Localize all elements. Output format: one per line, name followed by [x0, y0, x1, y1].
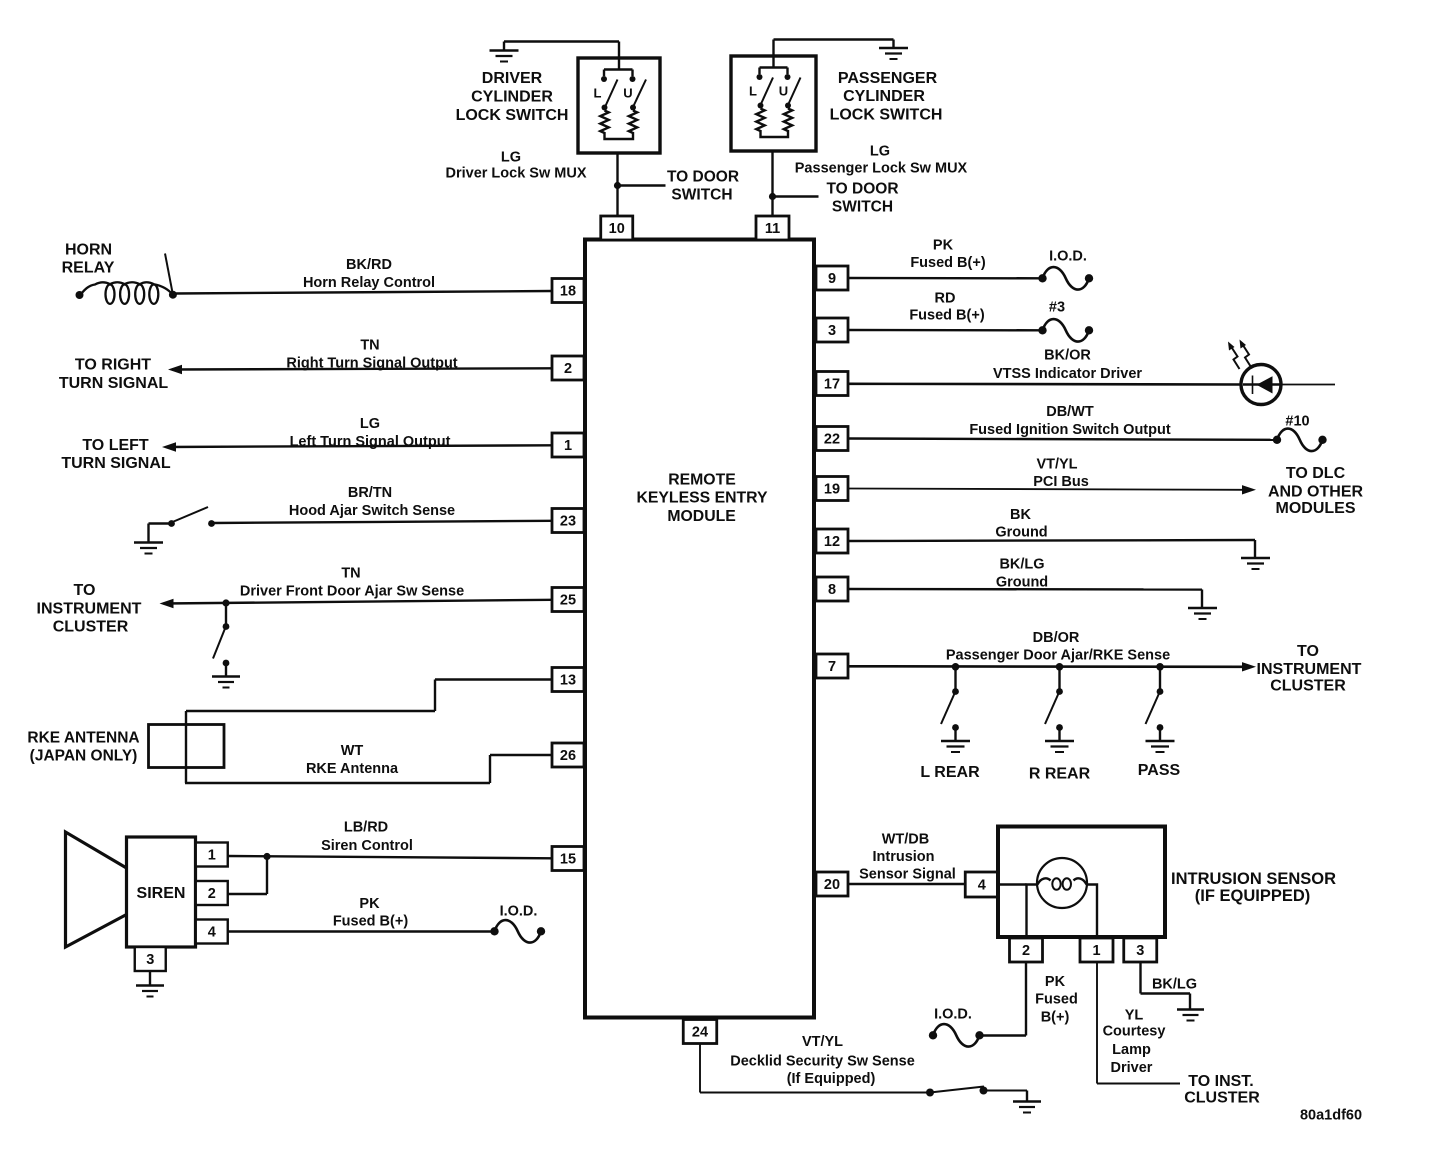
ground driver front door ajar switch — [212, 677, 240, 688]
label LG Passenger Lock Sw MUX — [795, 143, 968, 176]
svg-text:(IF EQUIPPED): (IF EQUIPPED) — [1195, 887, 1311, 905]
module pin 2 — [552, 356, 584, 380]
svg-text:LOCK SWITCH: LOCK SWITCH — [830, 106, 943, 123]
svg-text:REMOTE: REMOTE — [668, 472, 736, 489]
svg-text:TO RIGHT: TO RIGHT — [75, 356, 151, 373]
svg-text:TURN SIGNAL: TURN SIGNAL — [59, 375, 169, 392]
siren pin 2 — [196, 881, 228, 905]
svg-text:TO INST.: TO INST. — [1188, 1073, 1254, 1090]
wire pin 3 fused B+ — [848, 329, 1041, 332]
module pin 12 — [816, 529, 848, 553]
module pin 19 — [816, 477, 848, 501]
svg-text:22: 22 — [824, 431, 840, 447]
siren pin 3 — [135, 947, 166, 971]
svg-text:BR/TN: BR/TN — [348, 485, 392, 501]
svg-text:TO DLC: TO DLC — [1286, 465, 1346, 482]
hood ajar switch S3 — [149, 507, 215, 543]
wire horn relay control to pin 18 — [175, 291, 552, 294]
svg-text:CLUSTER: CLUSTER — [1184, 1089, 1260, 1106]
svg-text:I.O.D.: I.O.D. — [934, 1006, 972, 1022]
label #3 — [1049, 299, 1065, 315]
svg-text:TO DOOR: TO DOOR — [667, 169, 739, 186]
label VT/YL Decklid Security Sw Sense (If Equipped) — [730, 1034, 915, 1087]
wire pin 17 VTSS indicator — [848, 382, 1335, 385]
svg-text:24: 24 — [692, 1024, 708, 1040]
label DRIVER CYLINDER LOCK SWITCH — [456, 70, 569, 124]
svg-text:BK: BK — [1010, 507, 1031, 523]
horn relay coil K1 — [76, 254, 177, 304]
wire pin 26 to RKE antenna — [185, 755, 552, 783]
label PASSENGER CYLINDER LOCK SWITCH — [830, 70, 943, 124]
ground siren — [136, 986, 164, 997]
svg-text:TO LEFT: TO LEFT — [82, 437, 149, 454]
svg-text:R REAR: R REAR — [1029, 765, 1091, 782]
svg-text:PK: PK — [359, 896, 380, 912]
label R REAR — [1029, 765, 1091, 782]
svg-text:17: 17 — [824, 376, 840, 392]
svg-text:Fused B(+): Fused B(+) — [910, 255, 985, 271]
label BK/OR VTSS Indicator Driver — [993, 347, 1142, 382]
ground intrusion sensor — [1177, 1010, 1204, 1021]
intrusion sensor pin 3 — [1124, 938, 1157, 962]
door ajar switch L REAR — [941, 667, 959, 741]
ground decklid switch — [1013, 1102, 1041, 1113]
label BR/TN Hood Ajar Switch Sense — [289, 485, 455, 519]
label L REAR — [920, 764, 980, 781]
svg-text:HORN: HORN — [65, 241, 112, 258]
label WT/DB Intrusion Sensor Signal — [859, 831, 956, 882]
svg-text:#3: #3 — [1049, 299, 1065, 315]
fuse I.O.D. (siren) — [490, 920, 545, 943]
svg-text:WT: WT — [341, 743, 364, 759]
svg-text:26: 26 — [560, 748, 576, 764]
svg-text:TURN SIGNAL: TURN SIGNAL — [61, 455, 171, 472]
ground L REAR — [941, 741, 970, 752]
svg-text:18: 18 — [560, 283, 576, 299]
ground PASS — [1146, 741, 1175, 752]
svg-text:SWITCH: SWITCH — [671, 187, 732, 204]
svg-text:LG: LG — [870, 143, 890, 159]
svg-text:11: 11 — [765, 221, 780, 237]
module pin 25 — [552, 588, 584, 612]
module pin 7 — [816, 654, 848, 678]
lamp inside intrusion sensor — [1037, 858, 1087, 908]
svg-text:12: 12 — [824, 534, 840, 550]
label YL Courtesy Lamp Driver — [1103, 1007, 1166, 1076]
svg-text:20: 20 — [824, 877, 840, 893]
RKE antenna E1 — [149, 725, 225, 768]
svg-text:SWITCH: SWITCH — [832, 199, 893, 216]
svg-text:RKE Antenna: RKE Antenna — [306, 761, 399, 777]
wire intrusion pin 3 ground — [1141, 962, 1191, 1009]
label RD Fused B(+) (pin 3) — [909, 290, 984, 323]
svg-text:YL: YL — [1125, 1007, 1144, 1023]
module pin 13 — [552, 668, 584, 692]
svg-text:CYLINDER: CYLINDER — [471, 88, 553, 105]
label TO LEFT TURN SIGNAL — [61, 437, 171, 472]
svg-text:2: 2 — [564, 361, 572, 377]
svg-text:Sensor Signal: Sensor Signal — [859, 866, 956, 882]
ground driver lock switch — [490, 51, 519, 62]
svg-text:LB/RD: LB/RD — [344, 819, 388, 835]
svg-text:CLUSTER: CLUSTER — [53, 618, 129, 635]
label DB/WT Fused Ignition Switch Output — [969, 404, 1171, 438]
svg-text:I.O.D.: I.O.D. — [1049, 248, 1087, 264]
svg-text:RKE ANTENNA: RKE ANTENNA — [27, 730, 139, 747]
label LB/RD Siren Control — [321, 819, 413, 854]
wire lamp to intrusion pin 2 — [1027, 885, 1038, 938]
svg-text:PASSENGER: PASSENGER — [838, 70, 938, 87]
svg-text:Hood Ajar Switch Sense: Hood Ajar Switch Sense — [289, 503, 455, 519]
label I.O.D. (siren) — [500, 903, 538, 919]
driver cylinder lock switch S1 — [578, 58, 660, 153]
svg-text:9: 9 — [828, 271, 836, 287]
svg-text:Lamp: Lamp — [1112, 1042, 1151, 1058]
svg-text:I.O.D.: I.O.D. — [500, 903, 538, 919]
module pin 26 — [552, 743, 584, 767]
svg-text:TN: TN — [341, 565, 360, 581]
siren speaker cone — [66, 832, 127, 947]
fuse I.O.D. (pin 9) — [1038, 267, 1093, 290]
svg-text:WT/DB: WT/DB — [882, 831, 930, 847]
label TN Right Turn Signal Output — [286, 337, 457, 371]
svg-text:BK/RD: BK/RD — [346, 257, 392, 273]
wire pin 24 decklid security sw sense — [700, 1044, 928, 1093]
label PK Fused B(+) (siren) — [333, 896, 408, 930]
intrusion sensor pin 4 — [965, 872, 998, 897]
svg-text:RELAY: RELAY — [62, 259, 115, 276]
wire intrusion pin 1 courtesy lamp driver — [1097, 962, 1180, 1084]
svg-text:Passenger Door Ajar/RKE Sense: Passenger Door Ajar/RKE Sense — [946, 647, 1170, 663]
module pin 1 — [552, 433, 584, 457]
label INTRUSION SENSOR (IF EQUIPPED) — [1171, 870, 1336, 905]
svg-text:PCI Bus: PCI Bus — [1033, 474, 1089, 490]
svg-text:80a1df60: 80a1df60 — [1300, 1107, 1362, 1123]
module pin 8 — [816, 577, 848, 601]
svg-text:INSTRUMENT: INSTRUMENT — [37, 600, 142, 617]
wire right turn signal output — [168, 365, 552, 374]
module pin 24 — [683, 1020, 717, 1044]
wire pin 8 ground — [848, 589, 1202, 608]
svg-text:Decklid Security Sw Sense: Decklid Security Sw Sense — [730, 1053, 915, 1069]
intrusion sensor pin 1 — [1080, 938, 1113, 962]
module pin 18 — [552, 279, 584, 303]
svg-text:Ground: Ground — [996, 574, 1048, 590]
wire pin 22 fused ignition switch output — [848, 439, 1275, 440]
label VT/YL PCI Bus — [1033, 456, 1089, 490]
svg-text:2: 2 — [208, 886, 216, 902]
ground pin 12 — [1241, 558, 1270, 569]
wire pin 19 PCI bus — [848, 485, 1256, 494]
svg-text:RD: RD — [935, 290, 956, 306]
svg-text:PK: PK — [1045, 974, 1066, 990]
wire pin 7 passenger door ajar / RKE sense bus — [848, 662, 1256, 671]
svg-text:3: 3 — [828, 323, 836, 339]
siren pin 1 — [196, 843, 228, 867]
svg-text:TN: TN — [360, 337, 379, 353]
wire pin 11 to passenger lock switch — [771, 150, 773, 217]
svg-text:1: 1 — [1092, 943, 1100, 959]
svg-text:2: 2 — [1022, 943, 1030, 959]
remote keyless entry module U1 — [585, 240, 814, 1018]
svg-text:U: U — [623, 85, 632, 100]
svg-text:Driver: Driver — [1111, 1060, 1153, 1076]
svg-text:1: 1 — [564, 438, 572, 454]
label PK Fused B(+) (intrusion) — [1035, 974, 1078, 1026]
svg-text:Driver Front Door Ajar Sw Sens: Driver Front Door Ajar Sw Sense — [240, 583, 464, 599]
wire pin 13 to RKE antenna — [186, 680, 552, 784]
svg-text:Driver Lock Sw MUX: Driver Lock Sw MUX — [445, 165, 586, 181]
svg-text:4: 4 — [208, 924, 216, 940]
svg-text:19: 19 — [824, 481, 840, 497]
label TO INSTRUMENT CLUSTER (left) — [37, 582, 142, 636]
svg-text:Fused Ignition Switch Output: Fused Ignition Switch Output — [969, 422, 1171, 438]
svg-text:TO: TO — [1297, 643, 1319, 660]
module pin 9 — [816, 266, 848, 290]
wire intrusion pin 4 to lamp — [998, 883, 1027, 885]
wire intrusion pin 2 fused B+ — [981, 962, 1026, 1036]
label DB/OR Passenger Door Ajar/RKE Sense — [946, 630, 1170, 664]
svg-text:L: L — [749, 83, 757, 98]
ground pin 8 — [1188, 608, 1217, 619]
svg-text:8: 8 — [828, 582, 836, 598]
module pin 10 — [601, 216, 633, 240]
wire pin 10 to driver lock switch — [616, 152, 618, 217]
module pin 17 — [816, 372, 848, 396]
svg-text:(JAPAN ONLY): (JAPAN ONLY) — [30, 748, 138, 765]
wire siren control pin 1 to pin 15 — [228, 856, 552, 858]
label TO DLC AND OTHER MODULES — [1268, 465, 1364, 517]
node R REAR junction — [1056, 663, 1064, 671]
label I.O.D. (intrusion) — [934, 1006, 972, 1022]
svg-text:(If Equipped): (If Equipped) — [787, 1071, 876, 1087]
label TO RIGHT TURN SIGNAL — [59, 356, 169, 392]
svg-text:Fused: Fused — [1035, 991, 1078, 1007]
label TO DOOR SWITCH (passenger) — [826, 181, 898, 216]
label BK Ground — [995, 507, 1047, 541]
ground R REAR — [1045, 741, 1074, 752]
label PASS — [1138, 762, 1181, 779]
svg-text:VT/YL: VT/YL — [1036, 456, 1077, 472]
wire siren pin 4 fused B+ — [228, 930, 494, 932]
fuse I.O.D. (intrusion) — [929, 1024, 984, 1047]
wire siren pin 3 to ground — [149, 971, 151, 985]
svg-text:Courtesy: Courtesy — [1103, 1023, 1166, 1039]
decklid security switch S5 — [926, 1087, 1027, 1102]
driver front door ajar switch S4 — [213, 599, 230, 676]
label I.O.D. (pin 9) — [1049, 248, 1087, 264]
wire driver lock switch to ground — [504, 42, 619, 70]
svg-text:PK: PK — [933, 237, 954, 253]
svg-text:VTSS Indicator Driver: VTSS Indicator Driver — [993, 366, 1142, 382]
svg-text:U: U — [779, 83, 788, 98]
label TO INST. CLUSTER — [1184, 1073, 1260, 1107]
label LG Driver Lock Sw MUX — [445, 149, 586, 181]
intrusion sensor pin 2 — [1010, 938, 1043, 962]
label TO INSTRUMENT CLUSTER (right) — [1257, 643, 1362, 695]
svg-text:INSTRUMENT: INSTRUMENT — [1257, 661, 1362, 678]
svg-text:25: 25 — [560, 592, 576, 608]
svg-text:CYLINDER: CYLINDER — [843, 88, 925, 105]
svg-text:PASS: PASS — [1138, 762, 1181, 779]
label RKE ANTENNA (JAPAN ONLY) — [27, 730, 139, 765]
module pin 23 — [552, 509, 584, 533]
wire pin 20 intrusion sensor signal — [848, 883, 965, 885]
passenger cylinder lock switch S2 — [731, 56, 816, 151]
node PASS junction — [1156, 663, 1164, 671]
label BK/LG Ground — [996, 556, 1048, 590]
siren SP1 — [127, 837, 196, 947]
node passenger lock sw junction — [769, 193, 819, 200]
svg-text:BK/LG: BK/LG — [1152, 976, 1197, 992]
siren pin 4 — [196, 920, 228, 944]
module pin 15 — [552, 847, 584, 871]
svg-text:Fused B(+): Fused B(+) — [909, 307, 984, 323]
label BK/RD Horn Relay Control — [303, 257, 435, 291]
svg-text:1: 1 — [208, 847, 216, 863]
svg-text:23: 23 — [560, 513, 576, 529]
svg-text:13: 13 — [560, 672, 576, 688]
svg-text:Horn Relay Control: Horn Relay Control — [303, 275, 435, 291]
fuse #3 — [1038, 319, 1093, 342]
svg-text:SIREN: SIREN — [137, 885, 186, 902]
svg-text:DB/WT: DB/WT — [1046, 404, 1094, 420]
label LG Left Turn Signal Output — [290, 416, 451, 450]
svg-text:TO: TO — [74, 582, 96, 599]
ground hood ajar switch — [134, 543, 163, 554]
svg-text:Passenger Lock Sw MUX: Passenger Lock Sw MUX — [795, 160, 968, 176]
ground passenger lock switch — [879, 48, 908, 59]
svg-text:#10: #10 — [1285, 413, 1309, 429]
node siren control junction — [228, 853, 271, 894]
wire passenger lock switch to ground — [774, 40, 894, 68]
module pin 3 — [816, 318, 848, 342]
svg-text:INTRUSION SENSOR: INTRUSION SENSOR — [1171, 870, 1336, 888]
svg-text:Intrusion: Intrusion — [872, 849, 934, 865]
svg-text:3: 3 — [1136, 943, 1144, 959]
svg-text:CLUSTER: CLUSTER — [1270, 677, 1346, 694]
svg-text:LG: LG — [360, 416, 380, 432]
node L REAR junction — [952, 663, 960, 671]
svg-text:L: L — [594, 85, 602, 100]
label PK Fused B(+) (pin 9) — [910, 237, 985, 270]
svg-text:AND OTHER: AND OTHER — [1268, 483, 1364, 500]
wire pin 12 ground — [848, 540, 1255, 558]
fuse #10 — [1273, 429, 1327, 452]
svg-text:Siren Control: Siren Control — [321, 838, 413, 854]
wire left turn signal output — [162, 442, 552, 451]
label #10 — [1285, 413, 1309, 429]
svg-text:VT/YL: VT/YL — [802, 1034, 843, 1050]
label TN Driver Front Door Ajar Sw Sense — [240, 565, 464, 599]
svg-text:BK/OR: BK/OR — [1044, 347, 1091, 363]
svg-text:MODULES: MODULES — [1276, 500, 1356, 517]
label 80a1df60 — [1300, 1107, 1362, 1123]
LED VTSS indicator DS1 — [1228, 340, 1281, 405]
module pin 22 — [816, 427, 848, 451]
svg-text:LG: LG — [501, 149, 521, 165]
svg-text:3: 3 — [146, 952, 154, 968]
wire driver front door ajar sw sense to pin 25 — [160, 599, 553, 608]
svg-text:BK/LG: BK/LG — [999, 556, 1044, 572]
svg-text:MODULE: MODULE — [667, 508, 735, 525]
svg-text:10: 10 — [609, 221, 625, 237]
svg-text:L REAR: L REAR — [920, 764, 980, 781]
svg-text:Left Turn Signal Output: Left Turn Signal Output — [290, 434, 451, 450]
label BK/LG (intrusion) — [1152, 976, 1197, 992]
wire hood ajar switch sense to pin 23 — [213, 521, 552, 523]
node driver lock sw junction — [614, 182, 666, 189]
svg-text:B(+): B(+) — [1041, 1009, 1070, 1025]
svg-text:LOCK SWITCH: LOCK SWITCH — [456, 107, 569, 124]
intrusion sensor module A1 — [998, 827, 1165, 938]
svg-text:Ground: Ground — [995, 524, 1047, 540]
door ajar switch R REAR — [1045, 667, 1063, 741]
svg-text:7: 7 — [828, 659, 836, 675]
svg-text:15: 15 — [560, 851, 576, 867]
svg-text:KEYLESS ENTRY: KEYLESS ENTRY — [636, 490, 768, 507]
svg-text:DB/OR: DB/OR — [1033, 630, 1080, 646]
label HORN RELAY — [62, 241, 115, 276]
wire lamp to intrusion pin 1 — [1087, 885, 1098, 938]
svg-text:DRIVER: DRIVER — [482, 70, 543, 87]
module pin 11 — [756, 216, 789, 240]
svg-text:4: 4 — [978, 877, 986, 893]
label TO DOOR SWITCH (driver) — [667, 169, 739, 204]
wire pin 9 fused B+ — [848, 277, 1041, 280]
svg-text:Right Turn Signal Output: Right Turn Signal Output — [286, 355, 457, 371]
svg-text:TO DOOR: TO DOOR — [826, 181, 898, 198]
label WT RKE Antenna — [306, 743, 399, 777]
svg-text:Fused B(+): Fused B(+) — [333, 913, 408, 929]
module pin 20 — [816, 872, 848, 896]
door ajar switch PASS — [1146, 667, 1164, 741]
